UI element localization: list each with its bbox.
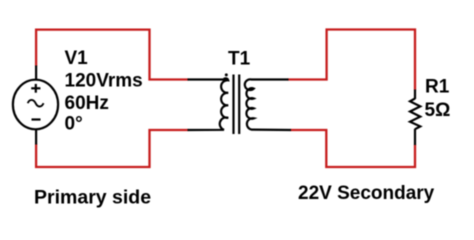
svg-text:60Hz: 60Hz bbox=[65, 93, 109, 114]
svg-text:120Vrms: 120Vrms bbox=[65, 70, 143, 91]
svg-text:22V Secondary: 22V Secondary bbox=[298, 183, 435, 204]
svg-text:5Ω: 5Ω bbox=[425, 100, 451, 121]
svg-text:Primary side: Primary side bbox=[34, 187, 151, 209]
svg-text:0°: 0° bbox=[65, 113, 83, 134]
svg-text:T1: T1 bbox=[228, 49, 251, 70]
svg-text:R1: R1 bbox=[425, 77, 450, 98]
svg-text:V1: V1 bbox=[65, 48, 89, 69]
